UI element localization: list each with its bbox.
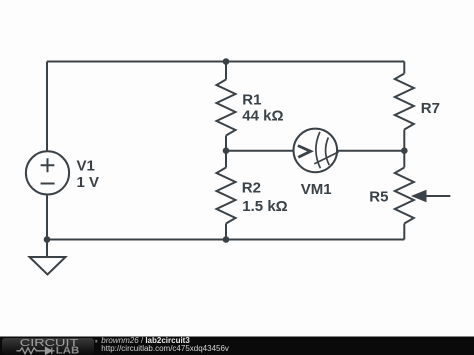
svg-text:R1: R1: [242, 91, 261, 108]
separator tick: [95, 340, 97, 343]
logo panel: [2, 338, 94, 355]
wire top rail: [47, 61, 404, 63]
junction node R2 / bottom rail: [223, 236, 230, 243]
svg-text:LAB: LAB: [56, 345, 80, 355]
footer bar: [0, 337, 474, 355]
junction node V1 / bottom rail / ground: [44, 236, 51, 243]
wire middle branch top lead: [225, 62, 227, 80]
wire bottom rail: [47, 239, 404, 241]
wire R2 bottom lead: [225, 224, 227, 240]
logo diode symbol: [40, 348, 55, 355]
resistor R1: [217, 80, 236, 136]
wire left branch top: [46, 62, 48, 152]
svg-text:V1: V1: [77, 157, 95, 174]
svg-text:1 V: 1 V: [77, 174, 100, 191]
junction node B (R1/R2/VM1): [223, 147, 230, 154]
wire R7 to node C: [403, 130, 405, 168]
wire voltmeter left: [226, 150, 294, 152]
svg-text:http://circuitlab.com/c475xdq4: http://circuitlab.com/c475xdq43456v: [101, 344, 229, 353]
svg-text:R7: R7: [421, 100, 440, 117]
voltmeter VM1: [294, 129, 339, 173]
wire voltmeter right: [337, 150, 404, 152]
wire V1 bottom lead: [46, 195, 48, 240]
wire right branch top lead: [403, 62, 405, 74]
wiper arrowhead of R5: [411, 190, 427, 203]
svg-text:R5: R5: [369, 189, 388, 206]
resistor R7: [395, 74, 414, 130]
svg-text:VM1: VM1: [301, 181, 332, 198]
ground: [30, 240, 66, 275]
junction node top rail / R1: [223, 58, 230, 65]
junction node C (R7/R5/VM1): [401, 147, 408, 154]
resistor R2: [217, 168, 236, 224]
wire R5 bottom lead: [403, 224, 405, 240]
wiper arrow of R5: [426, 195, 451, 197]
svg-text:44 kΩ: 44 kΩ: [242, 108, 283, 125]
voltage source V1: [26, 151, 69, 194]
wire R1 to node B: [225, 136, 227, 168]
svg-text:R2: R2: [242, 180, 261, 197]
potentiometer R5: [395, 168, 414, 224]
svg-text:1.5 kΩ: 1.5 kΩ: [242, 198, 287, 215]
logo resistor squiggle: [17, 348, 41, 354]
